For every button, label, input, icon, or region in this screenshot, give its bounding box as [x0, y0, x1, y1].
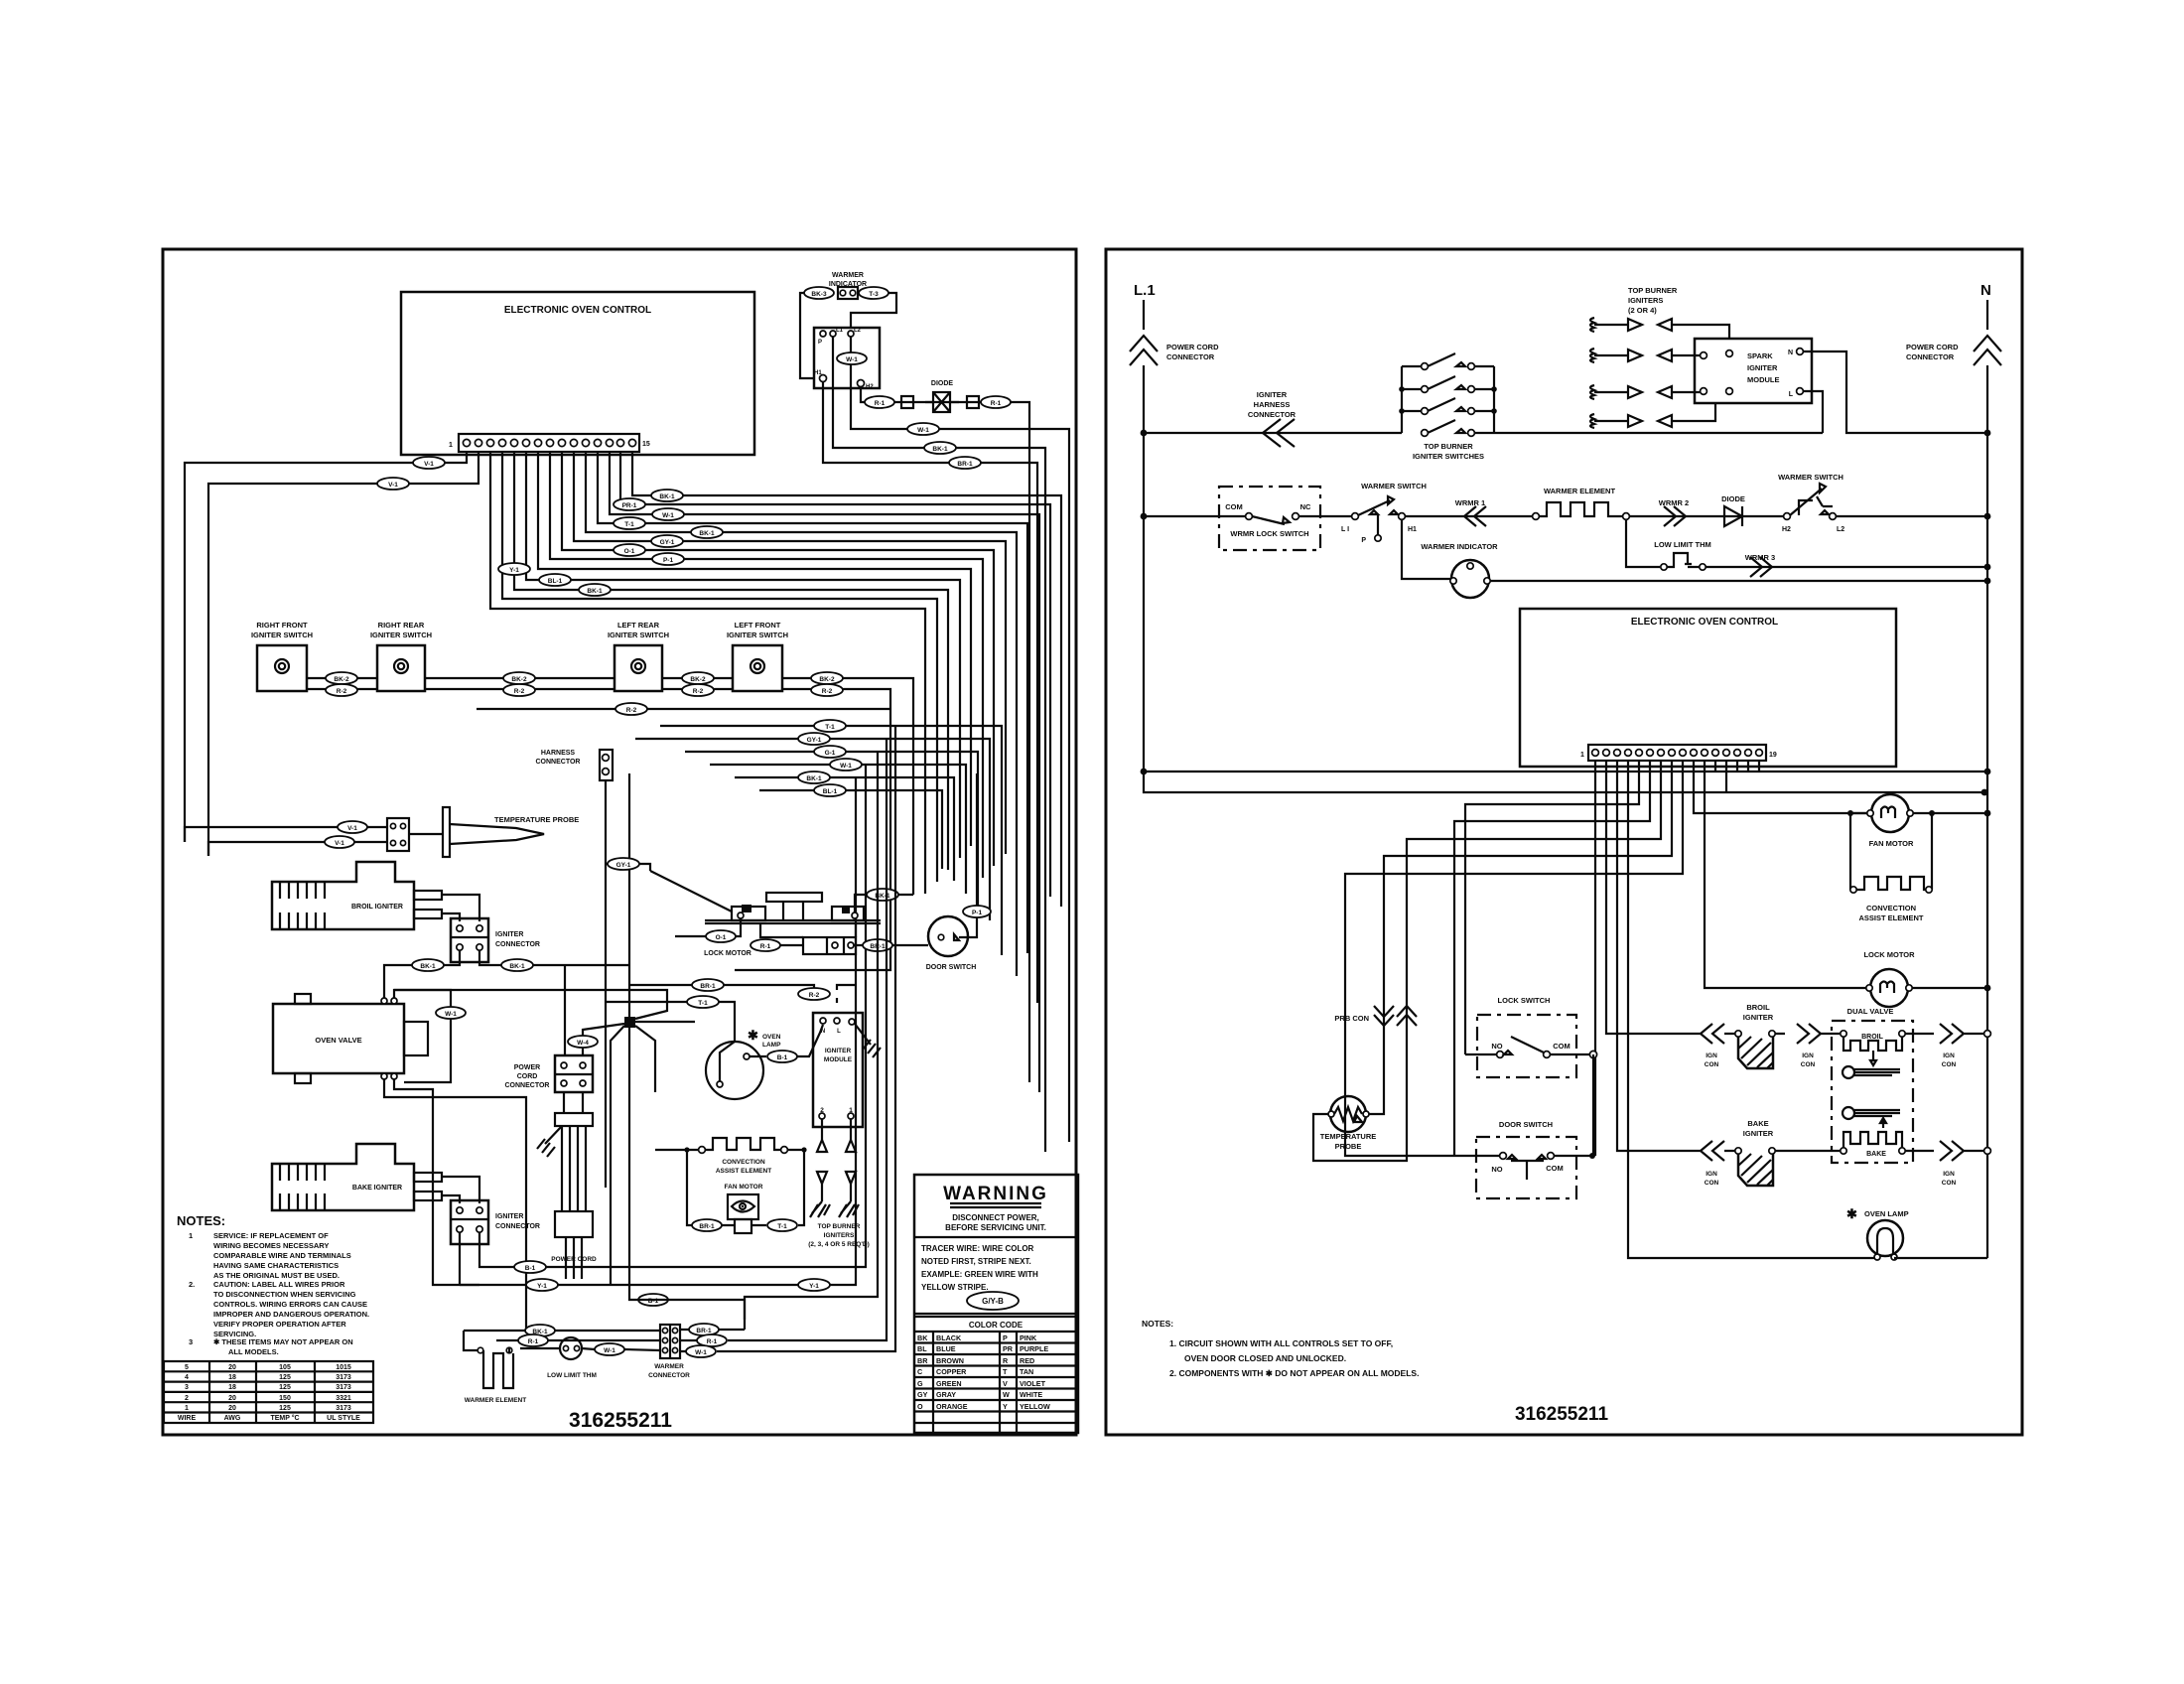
- wire: [1912, 987, 1987, 989]
- svg-text:IGNITER: IGNITER: [1743, 1013, 1774, 1022]
- wire: [1454, 761, 1650, 1156]
- wire from L2 pin through W-1 down to fan line: [851, 337, 1069, 1142]
- wire: [655, 1149, 698, 1151]
- igniter connector (bake): [451, 1200, 488, 1244]
- wire: [394, 1079, 479, 1285]
- svg-text:1: 1: [849, 1107, 853, 1114]
- svg-text:H2: H2: [1782, 526, 1791, 533]
- wire: [817, 1172, 856, 1184]
- wire: [1405, 515, 1532, 517]
- svg-text:RIGHT REAR: RIGHT REAR: [378, 621, 425, 630]
- broil igniter prongs: [414, 891, 442, 900]
- svg-text:T-1: T-1: [624, 521, 634, 528]
- wire: [1428, 420, 1494, 433]
- bus from switches to L wire: [1494, 432, 1823, 434]
- junction dot: [1984, 769, 1991, 775]
- wire label: [638, 1294, 668, 1306]
- svg-text:NO: NO: [1491, 1042, 1502, 1051]
- wire: [1705, 761, 1867, 988]
- svg-text:L I: L I: [1341, 526, 1349, 533]
- wire: [442, 913, 460, 921]
- svg-text:1: 1: [189, 1231, 193, 1240]
- wire: [611, 1026, 624, 1285]
- wire label: [692, 1219, 722, 1231]
- svg-text:LAMP: LAMP: [762, 1042, 781, 1049]
- svg-text:R-2: R-2: [626, 707, 637, 714]
- svg-text:IGNITERS: IGNITERS: [1628, 296, 1663, 305]
- svg-text:Y-1: Y-1: [537, 1283, 547, 1290]
- wire with Y-1 to right: [460, 777, 856, 1285]
- svg-text:R-1: R-1: [875, 400, 886, 407]
- svg-text:BR-1: BR-1: [957, 461, 973, 468]
- svg-text:COMPARABLE WIRE AND TERMINALS: COMPARABLE WIRE AND TERMINALS: [213, 1251, 351, 1260]
- wire gauge table: [164, 1361, 373, 1423]
- svg-text:BAKE: BAKE: [1747, 1119, 1768, 1128]
- wire: [914, 1236, 1078, 1238]
- svg-text:CONNECTOR: CONNECTOR: [1906, 352, 1955, 361]
- svg-text:BEFORE SERVICING UNIT.: BEFORE SERVICING UNIT.: [945, 1223, 1046, 1232]
- wire: [1490, 580, 1987, 582]
- wire label: [691, 526, 723, 538]
- wire label: [811, 672, 843, 684]
- svg-text:VIOLET: VIOLET: [1020, 1379, 1046, 1388]
- svg-text:COPPER: COPPER: [936, 1367, 967, 1376]
- door switch (left page): [928, 916, 968, 956]
- wire: [1465, 1053, 1592, 1055]
- svg-text:TEMPERATURE PROBE: TEMPERATURE PROBE: [494, 815, 579, 824]
- svg-text:YELLOW: YELLOW: [1020, 1402, 1050, 1411]
- svg-text:WARMER: WARMER: [832, 272, 864, 279]
- svg-text:R-2: R-2: [693, 688, 704, 695]
- svg-text:TOP BURNER: TOP BURNER: [818, 1223, 861, 1230]
- wire label: [652, 553, 684, 565]
- svg-text:T-3: T-3: [869, 291, 879, 298]
- svg-text:CAUTION: LABEL ALL WIRES PRI: CAUTION: LABEL ALL WIRES PRIOR: [213, 1280, 345, 1289]
- wire: [1750, 557, 1772, 577]
- wire: [1454, 1155, 1592, 1157]
- wire labels on band: [814, 720, 846, 732]
- svg-text:PR-1: PR-1: [622, 502, 637, 509]
- wire: [680, 739, 887, 1340]
- latch connector block: [803, 937, 856, 954]
- junction dot: [1981, 789, 1988, 796]
- svg-text:PURPLE: PURPLE: [1020, 1344, 1048, 1353]
- svg-text:R-1: R-1: [760, 943, 771, 950]
- svg-text:316255211: 316255211: [1515, 1404, 1608, 1425]
- wire label: [579, 584, 611, 596]
- wire: [1877, 1228, 1893, 1254]
- wire: [1854, 1069, 1900, 1075]
- terminal strip of oven control: [459, 434, 639, 452]
- wire: [783, 902, 803, 920]
- wire: [705, 1138, 781, 1150]
- svg-text:ELECTRONIC OVEN CONTROL: ELECTRONIC OVEN CONTROL: [1631, 617, 1778, 628]
- svg-text:LOW LIMIT THM: LOW LIMIT THM: [547, 1372, 597, 1379]
- svg-text:L.1: L.1: [1134, 282, 1156, 299]
- junction dot: [1984, 985, 1991, 992]
- top bus from L1 to igniter switches: [1144, 432, 1402, 434]
- valve symbol 2: [1843, 1107, 1854, 1119]
- svg-text:R-1: R-1: [991, 400, 1002, 407]
- svg-text:CON: CON: [1942, 1180, 1957, 1187]
- svg-text:N: N: [1788, 350, 1793, 356]
- svg-text:CON: CON: [1705, 1061, 1719, 1068]
- svg-text:IGNITER: IGNITER: [1747, 363, 1778, 372]
- svg-text:V-1: V-1: [335, 840, 344, 847]
- wire label T-1: [687, 996, 719, 1008]
- wire: [817, 1172, 851, 1184]
- svg-text:316255211: 316255211: [569, 1409, 672, 1432]
- power cord connector chevrons (N): [1974, 336, 2001, 365]
- lock motor right block: [832, 907, 864, 920]
- svg-text:B-1: B-1: [777, 1054, 788, 1061]
- svg-text:ORANGE: ORANGE: [936, 1402, 968, 1411]
- wire: [629, 1028, 745, 1330]
- wire: [1464, 506, 1486, 526]
- svg-text:BK-1: BK-1: [509, 963, 525, 970]
- wire label B-1: [514, 1261, 546, 1273]
- wire: [208, 842, 387, 856]
- svg-text:C: C: [917, 1367, 922, 1376]
- wire: [1881, 807, 1895, 819]
- wire label BR-1: [692, 979, 724, 991]
- svg-text:MODULE: MODULE: [824, 1056, 853, 1063]
- svg-text:B-1: B-1: [525, 1265, 536, 1272]
- wire: [1724, 506, 1742, 526]
- H2 terminal and warmer switch 2: [1784, 513, 1791, 520]
- wire loop around oven valve: [394, 990, 451, 1082]
- junction dot: [1984, 578, 1991, 585]
- svg-text:CONNECTOR: CONNECTOR: [648, 1372, 690, 1379]
- wire: [538, 452, 971, 846]
- wire label: [814, 746, 846, 758]
- wire: [526, 452, 960, 858]
- wire: [394, 990, 667, 1019]
- wire: [606, 864, 650, 871]
- oven valve: [273, 1004, 404, 1073]
- wire label V-1: [377, 478, 409, 490]
- wire: [1714, 761, 1716, 772]
- wire: [976, 773, 978, 906]
- second bus (L1 continues): [1144, 772, 1984, 792]
- wire: [1465, 761, 1639, 1054]
- top burner igniter row 1: [1590, 318, 1729, 339]
- wire: [1724, 1150, 1840, 1152]
- junction dot: [1399, 386, 1405, 392]
- svg-text:TEMP °C: TEMP °C: [270, 1414, 299, 1422]
- junction dot: [1984, 513, 1991, 520]
- svg-text:LOCK MOTOR: LOCK MOTOR: [1863, 950, 1915, 959]
- wire label: [652, 508, 684, 520]
- junction dot: [740, 1203, 746, 1209]
- svg-text:19: 19: [1769, 752, 1777, 759]
- wire label: [503, 672, 535, 684]
- wire: [1870, 1051, 1876, 1065]
- svg-text:W-1: W-1: [604, 1347, 615, 1354]
- svg-text:P: P: [818, 340, 822, 346]
- svg-text:1: 1: [449, 442, 453, 449]
- svg-text:IGN: IGN: [1943, 1052, 1955, 1059]
- wire: [635, 739, 990, 920]
- warmer indicator block: [838, 287, 858, 299]
- wire label W-1: [595, 1343, 624, 1355]
- svg-text:125: 125: [279, 1374, 291, 1381]
- wire below switches with R-2: [477, 708, 890, 710]
- wire label: [814, 784, 846, 796]
- wire: [1374, 1006, 1394, 1026]
- svg-text:T: T: [1003, 1367, 1008, 1376]
- svg-text:3321: 3321: [336, 1395, 351, 1402]
- igniter module: [813, 1013, 863, 1127]
- svg-text:CONNECTOR: CONNECTOR: [1248, 410, 1297, 419]
- svg-text:20: 20: [228, 1364, 236, 1371]
- wire: [598, 452, 1027, 953]
- wire label BK-1: [867, 889, 898, 901]
- svg-text:✱: ✱: [1846, 1206, 1857, 1221]
- wire: [1504, 1037, 1544, 1054]
- svg-text:WARMER SWITCH: WARMER SWITCH: [1361, 482, 1427, 491]
- top burner igniter switches bank: [1402, 366, 1494, 433]
- wire fan from terminals to right (11 wires): [632, 452, 1061, 907]
- power cord connector chevrons (L1): [1130, 336, 1158, 365]
- wire label R-1: [518, 1334, 548, 1346]
- svg-text:L: L: [837, 1029, 841, 1035]
- wire: [582, 1348, 660, 1350]
- svg-text:LOCK MOTOR: LOCK MOTOR: [704, 950, 751, 957]
- wire: [1706, 566, 1987, 568]
- wire: [451, 936, 488, 938]
- junction dot: [1984, 564, 1991, 571]
- svg-text:L1: L1: [836, 328, 844, 334]
- wire: [685, 752, 978, 906]
- wire label BR-1: [949, 457, 981, 469]
- svg-text:AWG: AWG: [224, 1415, 241, 1422]
- wire label BR-1: [863, 939, 892, 951]
- svg-text:WIRE: WIRE: [178, 1415, 197, 1422]
- wire label: [963, 906, 991, 917]
- wire: [1508, 1155, 1546, 1180]
- svg-text:PROBE: PROBE: [1335, 1142, 1362, 1151]
- wrmr lock switch dashed box: [1219, 487, 1320, 550]
- wire label: [498, 563, 530, 575]
- warmer element (left page): [478, 1347, 483, 1353]
- svg-text:Y-1: Y-1: [809, 1283, 819, 1290]
- wire: [1667, 553, 1700, 567]
- svg-text:✱: ✱: [748, 1028, 758, 1043]
- svg-text:OVEN LAMP: OVEN LAMP: [1864, 1209, 1909, 1218]
- wire: [1747, 761, 1749, 772]
- wires from bake prongs to igniter connector: [442, 1177, 479, 1203]
- wires from igniter connector down: [384, 950, 460, 998]
- svg-text:NOTED FIRST, STRIPE NEXT.: NOTED FIRST, STRIPE NEXT.: [921, 1257, 1031, 1266]
- wire: [490, 452, 925, 894]
- spark igniter module: [1695, 339, 1812, 403]
- svg-text:5: 5: [185, 1364, 189, 1371]
- bus under EOC (to N): [1144, 771, 1987, 772]
- svg-text:COM: COM: [1225, 502, 1243, 511]
- wire label O-1: [706, 930, 736, 942]
- under-board frame: [760, 923, 856, 937]
- svg-text:GY-1: GY-1: [660, 539, 675, 546]
- svg-text:W-1: W-1: [846, 356, 858, 363]
- svg-text:BK-1: BK-1: [806, 775, 822, 782]
- svg-text:Y-1: Y-1: [509, 567, 519, 574]
- svg-text:V-1: V-1: [347, 825, 357, 832]
- svg-text:CONNECTOR: CONNECTOR: [505, 1082, 550, 1089]
- svg-text:IGNITER: IGNITER: [1257, 390, 1288, 399]
- svg-text:BR-1: BR-1: [699, 1223, 715, 1230]
- svg-text:UL STYLE: UL STYLE: [327, 1415, 360, 1422]
- wire: [1298, 515, 1351, 517]
- wire: [720, 1042, 735, 1081]
- svg-text:IGNITER SWITCH: IGNITER SWITCH: [251, 631, 313, 639]
- junction dots on rails: [1141, 430, 1148, 437]
- low limit thermostat: [560, 1337, 582, 1359]
- wires between igniter switches: [307, 678, 377, 689]
- wire: [280, 912, 325, 929]
- temperature probe (right page): [1330, 1096, 1366, 1132]
- junction node: [624, 1017, 635, 1028]
- svg-text:BROWN: BROWN: [936, 1356, 964, 1365]
- svg-text:HARNESS: HARNESS: [541, 750, 576, 757]
- svg-text:WARMER ELEMENT: WARMER ELEMENT: [465, 1397, 527, 1404]
- svg-text:RIGHT FRONT: RIGHT FRONT: [256, 621, 308, 630]
- wire from L pin to bus: [1803, 391, 1823, 433]
- wire: [566, 1237, 582, 1279]
- wire: [1628, 761, 1875, 1258]
- svg-text:PINK: PINK: [1020, 1333, 1037, 1342]
- svg-text:1: 1: [185, 1405, 189, 1412]
- terminal strip (right page): [1588, 745, 1766, 761]
- left rear igniter switch: [614, 645, 662, 691]
- svg-text:15: 15: [642, 441, 650, 448]
- svg-text:IGNITER SWITCH: IGNITER SWITCH: [370, 631, 432, 639]
- wire: [827, 937, 844, 954]
- wire: [1880, 982, 1894, 994]
- svg-text:R-2: R-2: [514, 688, 525, 695]
- wire: [1402, 376, 1494, 389]
- svg-text:BR: BR: [917, 1356, 928, 1365]
- svg-text:YELLOW STRIPE.: YELLOW STRIPE.: [921, 1283, 989, 1292]
- svg-text:FAN MOTOR: FAN MOTOR: [725, 1184, 763, 1191]
- wire: [817, 1140, 856, 1152]
- wire: [1402, 519, 1451, 579]
- wire: [735, 777, 954, 881]
- right page border: [1106, 249, 2022, 1435]
- svg-text:R-2: R-2: [822, 688, 833, 695]
- svg-text:IGN: IGN: [1802, 1052, 1814, 1059]
- svg-text:R-2: R-2: [809, 992, 820, 999]
- svg-text:(2, 3, 4 OR 5 REQ'D): (2, 3, 4 OR 5 REQ'D): [808, 1241, 870, 1248]
- svg-text:CONNECTOR: CONNECTOR: [495, 1223, 540, 1230]
- wire labels on fan: [651, 490, 683, 501]
- wire: [732, 1201, 754, 1212]
- right rear igniter switch: [377, 645, 425, 691]
- svg-text:BK-1: BK-1: [932, 446, 948, 453]
- svg-text:LEFT FRONT: LEFT FRONT: [735, 621, 781, 630]
- svg-text:ASSIST ELEMENT: ASSIST ELEMENT: [1858, 913, 1923, 922]
- wire label: [682, 672, 714, 684]
- svg-text:BK-1: BK-1: [699, 530, 715, 537]
- svg-text:DIODE: DIODE: [931, 380, 954, 387]
- svg-text:105: 105: [279, 1364, 291, 1371]
- wires radiating from junction node: [628, 773, 630, 1017]
- svg-text:WARMER SWITCH: WARMER SWITCH: [1778, 473, 1843, 482]
- svg-text:IGN: IGN: [1706, 1171, 1717, 1178]
- svg-text:IGNITER SWITCH: IGNITER SWITCH: [727, 631, 788, 639]
- svg-text:T-1: T-1: [825, 724, 835, 731]
- wire: [479, 950, 630, 965]
- junction dot: [1984, 430, 1991, 437]
- wire: [1252, 516, 1290, 524]
- power cord: [564, 1092, 583, 1113]
- svg-text:IGNITERS: IGNITERS: [824, 1232, 855, 1239]
- wire: [855, 895, 913, 912]
- power cord connector: [555, 1055, 593, 1092]
- svg-text:W-1: W-1: [840, 763, 852, 770]
- svg-text:FAN MOTOR: FAN MOTOR: [1869, 839, 1914, 848]
- svg-text:AS THE ORIGINAL MUST BE USED.: AS THE ORIGINAL MUST BE USED.: [213, 1271, 340, 1280]
- svg-text:BK-1: BK-1: [587, 588, 603, 595]
- svg-text:IGNITER: IGNITER: [825, 1048, 852, 1054]
- wire: [425, 678, 614, 689]
- svg-text:POWER: POWER: [514, 1064, 540, 1071]
- wire label V-1: [413, 457, 445, 469]
- svg-text:DIODE: DIODE: [1721, 494, 1745, 503]
- fan motor (right page): [1871, 794, 1909, 832]
- svg-text:T-1: T-1: [698, 1000, 708, 1007]
- igniter harness connector chevrons: [1263, 419, 1295, 447]
- wire: [1390, 510, 1398, 514]
- svg-text:BK-1: BK-1: [420, 963, 436, 970]
- svg-text:L: L: [1789, 391, 1794, 398]
- wire label: [651, 535, 683, 547]
- svg-text:W-1: W-1: [695, 1349, 707, 1356]
- svg-text:V-1: V-1: [424, 461, 434, 468]
- svg-text:4: 4: [185, 1374, 189, 1381]
- svg-text:CONVECTION: CONVECTION: [1866, 904, 1916, 912]
- wire: [780, 944, 803, 946]
- wire: [442, 1195, 460, 1203]
- wire: [450, 824, 544, 844]
- wire from terminal 2 to left margin (Y-1): [208, 452, 478, 856]
- wire: [1854, 1110, 1900, 1116]
- broil igniter hatched body: [1738, 1037, 1773, 1068]
- junction dot: [1847, 810, 1853, 816]
- svg-text:NC: NC: [1300, 502, 1311, 511]
- broil igniter: [272, 862, 414, 929]
- svg-text:WARMER: WARMER: [654, 1363, 684, 1370]
- wire: [954, 934, 959, 940]
- svg-text:COM: COM: [1553, 1042, 1570, 1051]
- top burner igniter row 2: [1590, 349, 1700, 362]
- svg-text:3: 3: [185, 1384, 189, 1391]
- convection assist element (right page): [1850, 813, 1932, 890]
- svg-text:POWER CORD: POWER CORD: [1166, 343, 1219, 351]
- svg-text:POWER CORD: POWER CORD: [1906, 343, 1959, 351]
- svg-text:BK-2: BK-2: [690, 676, 706, 683]
- wire: [1334, 1107, 1362, 1122]
- svg-text:GRAY: GRAY: [936, 1390, 956, 1399]
- wire: [675, 918, 741, 936]
- wire label: [798, 733, 830, 745]
- wire from indicator right down into switch box: [851, 293, 896, 328]
- svg-text:CORD: CORD: [517, 1073, 538, 1080]
- svg-text:DUAL VALVE: DUAL VALVE: [1847, 1007, 1894, 1016]
- svg-text:W: W: [1003, 1390, 1010, 1399]
- wire: [1606, 761, 1701, 1034]
- warmer circuit line from L1: [1144, 515, 1245, 517]
